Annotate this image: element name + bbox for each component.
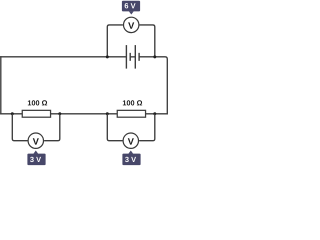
junction node: top wire right [153,55,156,58]
wire: right voltmeter right branch [139,114,155,141]
voltmeter V (3 V) right [123,133,138,148]
wire: right voltmeter left branch [107,114,122,141]
callout label: 3 V (left) [27,150,45,165]
wire: battery inter-cell link [130,56,135,58]
value label: 100 ohm (right) [123,100,142,105]
wire: left voltmeter right branch [44,114,60,141]
wire: 6V voltmeter right branch [140,25,155,57]
junction node: bottom wire a [11,112,14,115]
wire: 6V voltmeter left branch [107,25,123,57]
value label: 100 ohm (left) [28,100,47,105]
wire: top horizontal, left corner to battery positive plate [0,56,126,58]
resistor 100 ohm (left) [22,110,50,117]
wire: outer loop left vertical [0,56,2,114]
wire: left voltmeter left branch [12,114,27,141]
junction node: top wire left [106,55,109,58]
wire: top horizontal, battery to top-right corner, down right side [139,57,167,115]
resistor 100 ohm (right) [117,110,145,117]
callout label: 3 V (right) [122,150,140,165]
wire: bottom horizontal [0,113,167,115]
battery (two cells) [126,45,139,69]
junction node: bottom wire b [58,112,61,115]
voltmeter V (3 V) left [28,133,43,148]
callout label: 6 V [122,1,140,15]
junction node: bottom wire c [106,112,109,115]
junction node: bottom wire d [153,112,156,115]
voltmeter V (6 V) across battery [124,17,139,32]
